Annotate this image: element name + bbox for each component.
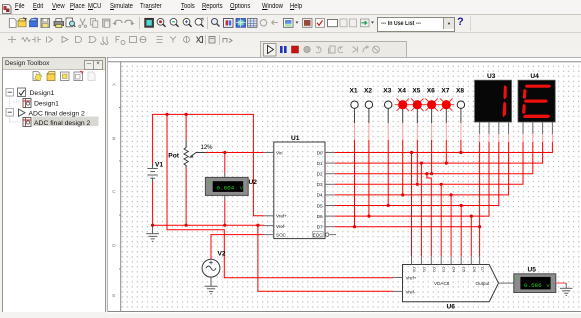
ground under V1 rail xyxy=(146,225,159,241)
svg-text:D3: D3 xyxy=(442,267,447,273)
ground at U5 xyxy=(560,283,572,295)
svg-text:D4: D4 xyxy=(452,267,457,273)
design toolbox tree xyxy=(6,88,99,127)
wire lamp X7 drop xyxy=(445,108,447,163)
component toolbar glyphs xyxy=(8,36,190,45)
toolbar: print preview xyxy=(66,18,75,27)
voltmeter probe U2 xyxy=(205,177,257,197)
wire lamp X3 drop xyxy=(387,108,389,205)
svg-text:D4: D4 xyxy=(317,193,323,198)
svg-text:X3: X3 xyxy=(383,88,391,95)
toolbar: ERC check xyxy=(316,19,325,28)
toolbar: zoom area xyxy=(195,18,203,27)
svg-text:D0: D0 xyxy=(412,267,417,273)
wire D0 net xyxy=(335,142,553,153)
toolbar: copy gray xyxy=(91,19,98,28)
svg-text:Design1: Design1 xyxy=(30,90,55,97)
svg-text:Vref+: Vref+ xyxy=(406,276,417,281)
wire D7 net xyxy=(335,142,480,227)
toolbar: new xyxy=(9,19,16,28)
window top edge xyxy=(0,1,581,3)
svg-text:ADC final design 2: ADC final design 2 xyxy=(29,110,86,117)
svg-text:0.604: 0.604 xyxy=(217,184,235,191)
ground under V2 xyxy=(205,277,218,294)
lamp X1 xyxy=(350,88,359,109)
seven-segment display U3 xyxy=(475,73,512,122)
wire Vplus to DAC Vref+ xyxy=(167,114,393,277)
DAC U6 xyxy=(393,256,514,310)
svg-text:0.586: 0.586 xyxy=(524,282,542,289)
U4 pin stubs xyxy=(523,122,552,134)
sheet margin masks xyxy=(108,58,581,314)
wire DAC D3 drop xyxy=(440,184,442,256)
svg-text:V1: V1 xyxy=(155,162,163,169)
toolbar: zoom in xyxy=(157,18,165,26)
lamp X7 lit xyxy=(438,88,454,111)
wire U5 to ground xyxy=(556,282,566,284)
svg-text:U5: U5 xyxy=(528,267,537,274)
svg-text:D1: D1 xyxy=(422,267,427,273)
wire D2 net xyxy=(335,142,533,174)
svg-text:D3: D3 xyxy=(317,182,323,187)
svg-text:U1: U1 xyxy=(291,135,300,142)
svg-text:Vref-: Vref- xyxy=(406,290,416,295)
design toolbox icons xyxy=(33,71,95,81)
wire DAC D0 drop xyxy=(411,153,413,257)
toolbar: print xyxy=(54,19,64,28)
wire V2 to SOC xyxy=(211,235,264,260)
wire V1 bottom to gnd rail xyxy=(152,181,154,226)
toolbar: maroon icon xyxy=(303,19,313,28)
wire lamp X6 drop xyxy=(431,108,433,173)
toolbar row 3 xyxy=(0,33,581,47)
svg-text:X2: X2 xyxy=(364,88,372,95)
toolbar: undo gray xyxy=(112,20,122,25)
wire D6 net xyxy=(335,142,489,216)
separator xyxy=(207,17,209,29)
toolbar: save xyxy=(41,19,50,28)
sheet border frame xyxy=(108,62,581,312)
wire gnd rail to DAC Vref- xyxy=(258,225,393,291)
svg-text:SOC: SOC xyxy=(276,232,287,237)
wire DAC D6 drop xyxy=(470,216,472,256)
svg-text:ADC final design 2: ADC final design 2 xyxy=(34,120,91,127)
svg-text:U4: U4 xyxy=(530,73,539,80)
sheet border letters xyxy=(112,82,116,299)
svg-text:X6: X6 xyxy=(427,88,435,95)
svg-text:+: + xyxy=(515,277,518,283)
junction dots xyxy=(151,113,260,227)
simulation toolbar buttons xyxy=(264,44,380,57)
toolbar: flag box xyxy=(224,19,234,28)
toolbar: refresh gray xyxy=(260,19,266,26)
potentiometer Pot xyxy=(168,141,213,168)
In Use List combobox xyxy=(377,17,455,32)
battery V1 xyxy=(147,162,163,183)
svg-text:Output: Output xyxy=(476,281,491,286)
wire lamp X5 drop xyxy=(416,108,418,184)
wire D5 net xyxy=(335,142,499,206)
toolbar: back gray xyxy=(272,20,279,24)
svg-text:Vref+: Vref+ xyxy=(276,214,287,219)
svg-text:X7: X7 xyxy=(441,88,449,95)
lamp X4 lit xyxy=(395,88,411,111)
svg-text:X4: X4 xyxy=(398,88,406,95)
svg-text:U2: U2 xyxy=(249,179,258,186)
toolbar: open blue xyxy=(30,18,38,27)
toolbar: zoom out xyxy=(170,18,178,26)
wire DAC D5 drop xyxy=(460,206,462,257)
wire D1 net xyxy=(335,142,543,163)
svg-text:D6: D6 xyxy=(472,267,477,273)
svg-text:D7: D7 xyxy=(480,267,485,273)
svg-text:E: E xyxy=(112,293,115,299)
svg-text:Pot: Pot xyxy=(168,153,179,160)
wire D3 net xyxy=(335,142,523,184)
wire gnd rail to Vref- xyxy=(153,224,264,226)
wire DAC D4 drop xyxy=(450,195,452,257)
svg-text:+: + xyxy=(207,180,210,186)
seven-segment display U4 xyxy=(518,73,555,122)
wire lamp X8 drop xyxy=(460,108,462,152)
design toolbox panel xyxy=(2,57,106,313)
wire pot top branch xyxy=(185,114,187,140)
svg-text:X8: X8 xyxy=(456,88,464,95)
lamp X5 lit xyxy=(409,88,425,111)
ADC U1 xyxy=(264,135,325,239)
toolbar: fullscreen teal xyxy=(145,18,154,27)
menu bar xyxy=(0,0,581,15)
toolbar: white rect xyxy=(328,20,338,27)
svg-text:D5: D5 xyxy=(462,267,467,273)
svg-text:-: - xyxy=(551,277,553,283)
wire D4 net xyxy=(335,142,509,195)
svg-text:U3: U3 xyxy=(487,73,496,80)
simulation toolbar xyxy=(260,41,407,61)
junction dots on data nets xyxy=(353,151,481,228)
svg-text:C: C xyxy=(112,189,116,195)
svg-text:D6: D6 xyxy=(317,214,323,219)
toolbar: gray pair xyxy=(340,19,357,27)
toolbar: open xyxy=(18,18,26,27)
svg-text:Vin: Vin xyxy=(276,150,283,155)
canvas xyxy=(107,57,581,313)
toolbar: zoom full xyxy=(183,18,191,26)
U3 pin stubs xyxy=(480,122,509,134)
svg-text:B: B xyxy=(112,136,115,142)
toolbar: paste gray xyxy=(103,19,111,28)
svg-text:Design1: Design1 xyxy=(34,100,59,107)
svg-text:D5: D5 xyxy=(317,203,323,208)
lamp X2 xyxy=(364,88,373,109)
svg-text:X1: X1 xyxy=(350,88,358,95)
svg-text:D0: D0 xyxy=(317,150,323,155)
wire probe U2 drop xyxy=(224,153,226,226)
svg-text:D1: D1 xyxy=(317,161,323,166)
toolbar row 2 xyxy=(0,15,581,33)
svg-text:U6: U6 xyxy=(447,303,456,310)
toolbar: grid blue-green xyxy=(236,19,246,28)
lamp X6 lit xyxy=(424,88,440,111)
svg-text:X5: X5 xyxy=(412,88,420,95)
toolbar: image box xyxy=(284,19,294,28)
wire DAC D7 drop xyxy=(479,227,481,257)
lamp X3 xyxy=(383,88,392,109)
svg-text:D: D xyxy=(112,243,116,249)
wire DAC D1 drop xyxy=(420,163,422,256)
svg-text:D7: D7 xyxy=(317,225,323,230)
svg-text:Vref-: Vref- xyxy=(276,224,286,229)
toolbar: cut gray xyxy=(79,19,87,28)
multisim app icon xyxy=(3,5,12,14)
svg-text:-: - xyxy=(207,191,209,197)
toolbar: redo gray xyxy=(125,20,135,25)
svg-text:12%: 12% xyxy=(201,145,214,151)
wire lamp X2 drop xyxy=(368,108,370,216)
AC source V2 xyxy=(202,251,226,278)
wire DAC D2 drop with jog xyxy=(427,174,431,257)
wire lamp X4 drop xyxy=(402,108,404,194)
U1 pins D0-D7 and EOC xyxy=(313,150,337,237)
wire pot wiper to Vin xyxy=(196,152,264,154)
toolbar: find xyxy=(212,19,220,27)
lamp X8 xyxy=(456,88,465,109)
voltmeter probe U5 xyxy=(514,267,556,293)
svg-text:VDAC8: VDAC8 xyxy=(434,281,450,286)
toolbar: export green arrow xyxy=(361,19,370,27)
wire pot bottom branch xyxy=(185,168,187,226)
svg-text:D2: D2 xyxy=(432,267,437,273)
wire V1 plus rail xyxy=(153,114,264,215)
separator xyxy=(139,17,141,29)
svg-text:V2: V2 xyxy=(218,251,226,258)
wire lamp X1 drop xyxy=(354,108,356,226)
svg-text:EOC: EOC xyxy=(313,232,324,237)
toolbar: spreadsheet xyxy=(248,19,258,28)
svg-text:D2: D2 xyxy=(317,172,323,177)
